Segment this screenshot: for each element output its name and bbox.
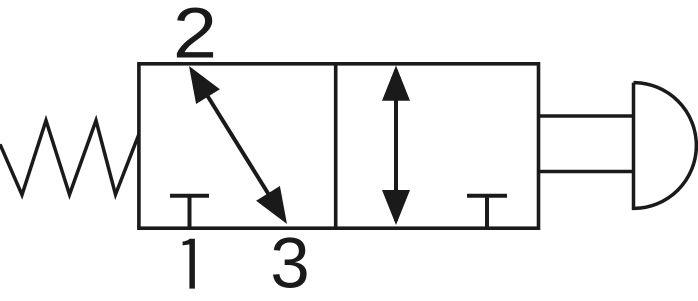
blocked port (right position, T symbol) — [467, 196, 507, 228]
push-button stem bottom line — [539, 170, 634, 174]
push-button mushroom head — [634, 83, 697, 209]
flow path arrow 2-3 (left position, diagonal double arrow) — [189, 66, 287, 224]
spring (return spring, left side) — [0, 121, 139, 195]
svg-text:3: 3 — [270, 225, 310, 301]
port label 1 — [183, 239, 195, 289]
svg-text:2: 2 — [173, 0, 217, 73]
position divider — [334, 64, 338, 228]
flow path arrow (right position, vertical double arrow) — [382, 66, 410, 226]
blocked port 1 (left position, T symbol) — [170, 196, 209, 228]
push-button stem top line — [539, 114, 634, 118]
valve body (two-position box) — [139, 64, 539, 228]
